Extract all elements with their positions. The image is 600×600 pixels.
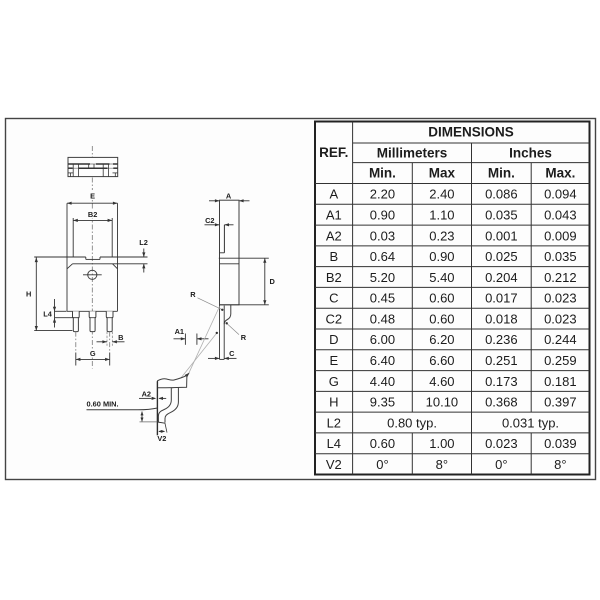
- svg-text:0.90: 0.90: [370, 207, 395, 222]
- svg-text:C: C: [229, 349, 235, 358]
- body top edge: [73, 263, 148, 265]
- svg-text:0.204: 0.204: [485, 270, 518, 285]
- body left chamfer: [67, 264, 73, 269]
- svg-text:B2: B2: [326, 270, 342, 285]
- svg-text:Millimeters: Millimeters: [377, 145, 448, 160]
- body sides: [66, 268, 68, 312]
- svg-text:0.009: 0.009: [544, 228, 577, 243]
- end view outline: [68, 157, 118, 176]
- svg-text:8°: 8°: [436, 457, 448, 472]
- svg-text:5.20: 5.20: [370, 270, 395, 285]
- svg-text:0.23: 0.23: [429, 228, 454, 243]
- H bottom extension line: [34, 330, 72, 332]
- svg-text:0.212: 0.212: [544, 270, 577, 285]
- end view left lead edges: [72, 164, 74, 177]
- E extension lines: [66, 203, 68, 267]
- svg-text:0.023: 0.023: [485, 436, 518, 451]
- tab bottom edge with notch: [34, 256, 86, 258]
- detail leader arrowhead: [185, 373, 190, 378]
- svg-text:L4: L4: [327, 436, 341, 451]
- svg-text:0.025: 0.025: [485, 249, 518, 264]
- svg-text:R: R: [190, 290, 196, 299]
- svg-text:0.90: 0.90: [429, 249, 454, 264]
- svg-text:0.001: 0.001: [485, 228, 518, 243]
- svg-text:0°: 0°: [495, 457, 507, 472]
- svg-text:0.60: 0.60: [429, 291, 454, 306]
- svg-text:B2: B2: [88, 210, 97, 219]
- svg-text:6.60: 6.60: [429, 353, 454, 368]
- svg-text:0.64: 0.64: [370, 249, 395, 264]
- svg-text:Max: Max: [429, 166, 456, 181]
- detail foot angle edge: [165, 423, 167, 433]
- dimension G: [88, 349, 98, 358]
- svg-text:A: A: [329, 187, 338, 202]
- svg-text:L2: L2: [139, 238, 148, 247]
- tab left side: [72, 218, 74, 257]
- body right chamfer: [113, 264, 118, 269]
- svg-text:0.244: 0.244: [544, 332, 577, 347]
- end view lower edge line: [68, 167, 118, 169]
- svg-text:G: G: [90, 349, 96, 358]
- tab right side: [111, 218, 113, 257]
- svg-text:2.40: 2.40: [429, 187, 454, 202]
- body bottom edge: [67, 310, 118, 312]
- end view bottom right step: [113, 172, 118, 174]
- end view centerline: [91, 146, 93, 190]
- svg-text:0.45: 0.45: [370, 291, 395, 306]
- drawing sheet frame: [6, 119, 596, 480]
- svg-text:0.259: 0.259: [544, 353, 577, 368]
- detail lead inner edge: [158, 388, 171, 423]
- svg-text:0.251: 0.251: [485, 353, 518, 368]
- svg-text:6.40: 6.40: [370, 353, 395, 368]
- end view center tab: [88, 164, 90, 168]
- svg-text:0.181: 0.181: [544, 374, 577, 389]
- front view left lead: [73, 311, 80, 331]
- end view right lead edges: [102, 164, 104, 177]
- svg-text:Min.: Min.: [369, 166, 396, 181]
- svg-text:0.039: 0.039: [544, 436, 577, 451]
- svg-text:Max.: Max.: [545, 166, 575, 181]
- svg-text:C: C: [329, 291, 338, 306]
- svg-text:2.20: 2.20: [370, 187, 395, 202]
- svg-text:A2: A2: [142, 390, 151, 399]
- svg-text:0.017: 0.017: [485, 291, 518, 306]
- end view lower edge thick segments: [68, 167, 73, 169]
- right lead centerline: [109, 332, 111, 353]
- side view tab outline: [220, 200, 240, 305]
- svg-text:6.20: 6.20: [429, 332, 454, 347]
- svg-text:0.023: 0.023: [544, 311, 577, 326]
- svg-text:R: R: [241, 333, 247, 342]
- detail broken body piece: [158, 375, 187, 388]
- svg-text:A2: A2: [326, 228, 342, 243]
- side view lead: [219, 305, 221, 360]
- svg-text:9.35: 9.35: [370, 395, 395, 410]
- svg-text:0.236: 0.236: [485, 332, 518, 347]
- svg-text:1.00: 1.00: [429, 436, 454, 451]
- svg-text:0°: 0°: [376, 457, 388, 472]
- svg-text:V2: V2: [157, 434, 166, 443]
- front view centerline: [91, 193, 93, 369]
- lead step line: [55, 317, 79, 319]
- side view tab inner line: [223, 225, 225, 253]
- detail leader line lower: [173, 333, 217, 389]
- svg-text:10.10: 10.10: [426, 395, 459, 410]
- end view upper edge thick segments: [68, 163, 90, 165]
- svg-text:0.035: 0.035: [485, 207, 518, 222]
- svg-text:Inches: Inches: [509, 145, 552, 160]
- side view tab bottom line: [219, 257, 269, 259]
- dimensions table: [315, 122, 590, 475]
- svg-text:A1: A1: [175, 327, 184, 336]
- svg-text:0.397: 0.397: [544, 395, 577, 410]
- end view upper edge line: [68, 163, 118, 165]
- front view center lead: [89, 311, 96, 331]
- svg-text:E: E: [329, 353, 338, 368]
- svg-text:REF.: REF.: [319, 145, 348, 160]
- detail foot bottom: [157, 422, 165, 423]
- svg-text:H: H: [26, 290, 31, 299]
- svg-text:0.173: 0.173: [485, 374, 518, 389]
- L4 top extension: [55, 310, 67, 312]
- svg-text:Min.: Min.: [488, 166, 515, 181]
- dimension E: [86, 191, 98, 200]
- svg-text:0.094: 0.094: [544, 187, 577, 202]
- svg-text:6.00: 6.00: [370, 332, 395, 347]
- svg-text:E: E: [90, 192, 95, 201]
- svg-text:A1: A1: [326, 207, 342, 222]
- svg-text:D: D: [329, 332, 338, 347]
- left lead centerline: [75, 332, 77, 353]
- svg-text:H: H: [329, 395, 338, 410]
- front view right lead: [106, 311, 113, 331]
- svg-text:DIMENSIONS: DIMENSIONS: [428, 125, 514, 140]
- detail lead outer edge: [165, 388, 178, 423]
- svg-text:0.60: 0.60: [429, 311, 454, 326]
- svg-text:8°: 8°: [554, 457, 566, 472]
- svg-text:0.368: 0.368: [485, 395, 518, 410]
- svg-text:C2: C2: [325, 311, 342, 326]
- svg-text:A: A: [226, 192, 232, 201]
- svg-text:4.60: 4.60: [429, 374, 454, 389]
- svg-text:1.10: 1.10: [429, 207, 454, 222]
- end view bottom left step: [68, 172, 73, 174]
- svg-text:0.03: 0.03: [370, 228, 395, 243]
- svg-text:0.80 typ.: 0.80 typ.: [387, 415, 437, 430]
- svg-text:0.043: 0.043: [544, 207, 577, 222]
- svg-text:0.023: 0.023: [544, 291, 577, 306]
- svg-text:4.40: 4.40: [370, 374, 395, 389]
- svg-text:5.40: 5.40: [429, 270, 454, 285]
- svg-text:C2: C2: [205, 216, 214, 225]
- svg-text:L2: L2: [327, 415, 341, 430]
- svg-text:0.60: 0.60: [370, 436, 395, 451]
- svg-text:0.086: 0.086: [485, 187, 518, 202]
- svg-text:0.035: 0.035: [544, 249, 577, 264]
- svg-text:0.031 typ.: 0.031 typ.: [502, 415, 559, 430]
- dimension B2: [84, 210, 101, 219]
- detail datum line: [156, 381, 158, 435]
- svg-text:L4: L4: [43, 310, 53, 319]
- svg-text:G: G: [329, 374, 339, 389]
- svg-text:V2: V2: [326, 457, 342, 472]
- side view body bottom line: [220, 304, 269, 306]
- svg-text:B: B: [329, 249, 338, 264]
- detail leader line upper: [189, 307, 220, 374]
- svg-text:0.48: 0.48: [370, 311, 395, 326]
- tab index circle: [88, 270, 97, 279]
- detail seating plane tick: [140, 421, 158, 423]
- svg-text:0.018: 0.018: [485, 311, 518, 326]
- svg-text:0.60 MIN.: 0.60 MIN.: [87, 399, 119, 408]
- svg-text:B: B: [118, 333, 123, 342]
- side view body top line: [220, 263, 240, 265]
- svg-text:D: D: [270, 277, 276, 286]
